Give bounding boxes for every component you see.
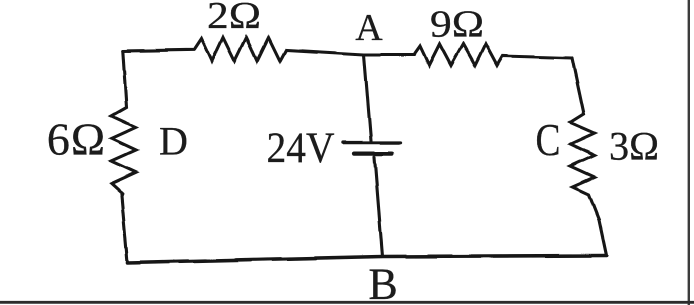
svg-text:B: B <box>368 260 397 305</box>
svg-text:C: C <box>536 114 561 165</box>
svg-text:2Ω: 2Ω <box>207 0 261 37</box>
svg-text:D: D <box>159 119 188 164</box>
svg-text:9Ω: 9Ω <box>430 4 484 46</box>
svg-text:3Ω: 3Ω <box>609 124 659 169</box>
svg-text:A: A <box>355 7 383 49</box>
svg-text:24V: 24V <box>267 125 335 172</box>
svg-text:6Ω: 6Ω <box>47 114 106 165</box>
